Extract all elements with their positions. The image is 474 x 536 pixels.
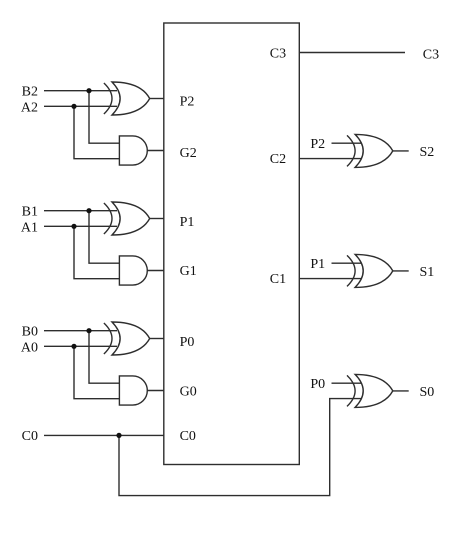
wire AND G0 output [147,390,164,392]
svg-text:B0: B0 [22,325,38,340]
svg-text:P2: P2 [180,95,195,110]
svg-text:A1: A1 [21,221,38,236]
wire C0 input [44,434,164,436]
wire A2 [44,105,117,107]
wire AND G1 output [147,270,164,272]
wire XOR S2 output [393,150,409,152]
wire B0 [44,330,117,332]
svg-text:G2: G2 [180,146,197,161]
carry-lookahead unit U1 [164,23,299,465]
svg-text:A2: A2 [21,101,38,116]
wire B2 [44,90,117,92]
svg-text:C3: C3 [423,48,439,63]
svg-text:C0: C0 [22,429,38,444]
wire A1 [44,225,117,227]
xor gate S2 [347,134,393,167]
junction dot B2 [86,88,91,93]
svg-text:B1: B1 [22,205,38,220]
and gate G1 [119,256,147,285]
junction dot B0 [86,328,91,333]
svg-text:C1: C1 [270,272,286,287]
wire XOR P2 output [150,98,164,100]
svg-text:P1: P1 [180,215,195,230]
xor gate P1 [104,202,150,235]
svg-text:S0: S0 [420,385,435,400]
wire P1 to XOR S1 [332,262,362,264]
wire B0 to AND G0 top input [89,331,119,384]
junction dot A0 [71,344,76,349]
svg-text:B2: B2 [22,85,38,100]
wire XOR P0 output [150,338,164,340]
wire B1 to AND G1 top input [89,211,119,264]
wire XOR S0 output [393,390,409,392]
wire P0 to XOR S0 [332,382,362,384]
wire C0 feedback down [119,399,361,496]
wire XOR S1 output [393,270,409,272]
junction dot B1 [86,208,91,213]
wire A2 to AND G2 bottom input [74,106,119,158]
svg-text:C0: C0 [180,429,196,444]
xor gate S0 [347,374,393,407]
svg-text:G1: G1 [180,264,197,279]
wire A1 to AND G1 bottom input [74,226,119,278]
wire AND G2 output [147,150,164,152]
wire A0 to AND G0 bottom input [74,346,119,398]
svg-text:A0: A0 [21,341,38,356]
svg-text:P1: P1 [310,257,325,272]
and gate G0 [119,376,147,405]
svg-text:P2: P2 [310,137,325,152]
wire B1 [44,210,117,212]
and gate G2 [119,136,147,165]
svg-text:C3: C3 [270,46,286,61]
svg-text:S1: S1 [420,265,435,280]
svg-text:P0: P0 [180,335,195,350]
wire XOR P1 output [150,218,164,220]
svg-text:G0: G0 [180,385,197,400]
svg-text:C2: C2 [270,152,286,167]
wire C2 from U1 to XOR S2 [299,158,361,160]
junction dot A2 [71,104,76,109]
svg-text:S2: S2 [420,145,435,160]
svg-text:P0: P0 [310,377,325,392]
junction dot A1 [71,224,76,229]
junction dot C0 [116,433,121,438]
wire B2 to AND G2 top input [89,91,119,144]
xor gate S1 [347,254,393,287]
wire C3 output [299,52,405,54]
wire A0 [44,345,117,347]
wire C1 from U1 to XOR S1 [299,278,361,280]
xor gate P2 [104,82,150,115]
xor gate P0 [104,322,150,355]
wire P2 to XOR S2 [332,142,362,144]
